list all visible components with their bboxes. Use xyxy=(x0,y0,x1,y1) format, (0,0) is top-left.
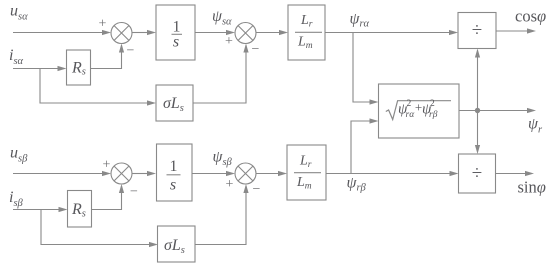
svg-text:s: s xyxy=(170,177,176,194)
svg-text:−: − xyxy=(130,185,138,200)
svg-text:ψsβ: ψsβ xyxy=(213,149,233,169)
svg-text:+: + xyxy=(225,34,233,49)
svg-text:÷: ÷ xyxy=(472,163,482,184)
svg-text:ψrβ: ψrβ xyxy=(347,175,367,194)
svg-text:isα: isα xyxy=(9,47,24,67)
svg-text:ψrα: ψrα xyxy=(350,11,370,30)
svg-text:2: 2 xyxy=(407,99,412,109)
svg-text:isβ: isβ xyxy=(9,189,24,209)
svg-text:ψsα: ψsα xyxy=(212,8,232,28)
svg-text:2: 2 xyxy=(430,99,435,109)
svg-text:+: + xyxy=(226,177,234,192)
svg-text:ψr: ψr xyxy=(528,116,543,136)
svg-text:σLs: σLs xyxy=(163,95,184,114)
svg-text:σLs: σLs xyxy=(164,237,185,256)
svg-text:cosφ: cosφ xyxy=(515,7,546,26)
svg-text:Lm: Lm xyxy=(297,35,313,52)
svg-text:Rs: Rs xyxy=(71,201,86,220)
svg-text:+: + xyxy=(99,17,107,32)
svg-text:−: − xyxy=(253,182,261,197)
svg-text:Rs: Rs xyxy=(71,60,86,78)
svg-text:rβ: rβ xyxy=(429,110,438,120)
svg-text:usα: usα xyxy=(10,3,28,23)
svg-text:s: s xyxy=(173,34,179,51)
svg-text:+: + xyxy=(103,158,111,173)
svg-text:Lm: Lm xyxy=(296,175,312,192)
svg-text:usβ: usβ xyxy=(10,145,28,165)
svg-text:sinφ: sinφ xyxy=(518,178,546,197)
svg-text:−: − xyxy=(252,42,260,57)
svg-text:Lr: Lr xyxy=(300,13,313,30)
svg-text:rα: rα xyxy=(406,110,416,120)
svg-text:1: 1 xyxy=(170,158,178,175)
svg-text:Lr: Lr xyxy=(299,154,312,171)
svg-text:÷: ÷ xyxy=(472,20,482,41)
svg-text:−: − xyxy=(127,44,135,59)
